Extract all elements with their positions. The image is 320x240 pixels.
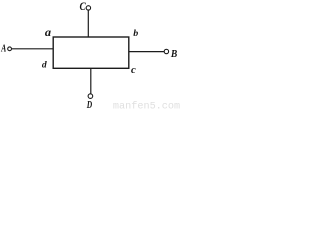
svg-text:a: a	[45, 27, 51, 39]
svg-text:manfen5.com: manfen5.com	[113, 101, 180, 112]
box (two-port network)	[53, 37, 129, 68]
wire A to box left edge	[12, 48, 53, 50]
wire box bottom edge to D	[90, 68, 92, 93]
svg-text:C: C	[80, 0, 87, 13]
svg-text:A: A	[0, 44, 6, 55]
terminal D circle	[88, 94, 93, 99]
svg-text:d: d	[42, 61, 47, 71]
svg-text:B: B	[170, 49, 177, 60]
svg-text:c: c	[131, 64, 136, 76]
svg-text:D: D	[86, 99, 92, 111]
terminal C circle	[86, 6, 90, 10]
svg-text:b: b	[133, 29, 138, 39]
wire C down to box top edge	[87, 10, 89, 37]
terminal B circle	[164, 49, 168, 53]
wire box right edge to B	[129, 51, 164, 53]
terminal A circle	[8, 47, 12, 51]
